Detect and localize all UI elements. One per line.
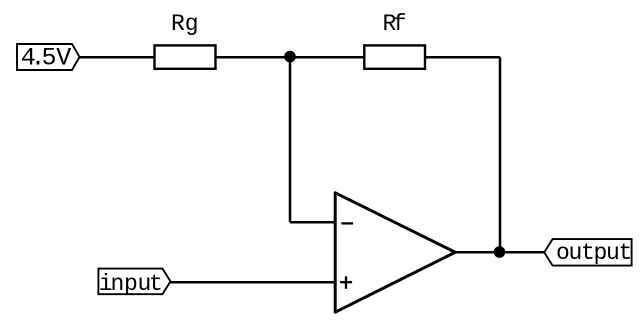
inverting input minus sign: [341, 222, 353, 224]
wire: node A to Rf: [290, 56, 364, 59]
wire: right vertical feedback: [499, 57, 502, 252]
wire: to inverting input: [290, 221, 335, 224]
wire: node A down: [289, 57, 292, 222]
power flag 4.5V: [17, 44, 80, 73]
wire: Rf to top-right corner: [425, 56, 500, 59]
op-amp U1: [335, 193, 455, 312]
svg-text:Rg: Rg: [171, 11, 199, 37]
svg-text:4.5V: 4.5V: [21, 44, 71, 73]
wire: input flag to non-inverting input: [171, 281, 336, 284]
output node junction: [494, 246, 506, 258]
node A junction: [284, 51, 296, 63]
resistor Rf: [364, 11, 425, 69]
wire: 4.5V flag to Rg: [80, 56, 155, 59]
svg-text:input: input: [99, 271, 163, 297]
wire: op-amp output to output flag: [456, 251, 544, 254]
output flag: [544, 239, 631, 266]
svg-text:Rf: Rf: [383, 11, 406, 37]
svg-text:output: output: [556, 240, 631, 266]
resistor Rg: [155, 11, 216, 69]
input flag: [98, 269, 170, 297]
non-inverting input plus sign: [340, 281, 352, 283]
wire: Rg to node A: [216, 56, 291, 59]
